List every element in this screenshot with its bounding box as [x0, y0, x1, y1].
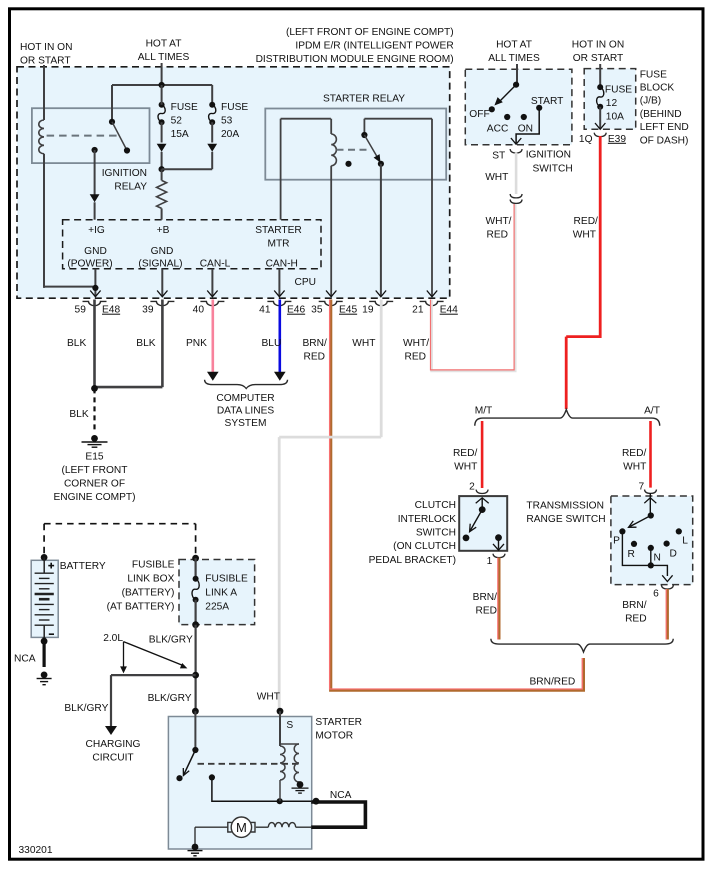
- svg-text:INTERLOCK: INTERLOCK: [398, 514, 457, 525]
- svg-text:20A: 20A: [221, 129, 239, 140]
- svg-text:BRN/: BRN/: [473, 592, 498, 603]
- svg-text:FUSE: FUSE: [605, 84, 632, 95]
- svg-text:10A: 10A: [606, 111, 624, 122]
- svg-text:53: 53: [221, 116, 233, 127]
- svg-text:6: 6: [653, 588, 659, 599]
- svg-text:225A: 225A: [205, 602, 229, 613]
- svg-text:ON: ON: [518, 123, 533, 134]
- svg-text:SYSTEM: SYSTEM: [225, 418, 267, 429]
- svg-text:R: R: [628, 549, 635, 560]
- svg-text:39: 39: [142, 305, 154, 316]
- svg-text:MTR: MTR: [267, 239, 289, 250]
- svg-text:(BATTERY): (BATTERY): [122, 588, 175, 599]
- svg-text:BLU: BLU: [262, 338, 282, 349]
- svg-text:WHT: WHT: [352, 338, 375, 349]
- svg-text:HOT IN ON: HOT IN ON: [572, 39, 624, 50]
- svg-text:WHT: WHT: [454, 462, 477, 473]
- svg-text:41: 41: [259, 305, 271, 316]
- svg-text:D: D: [670, 548, 677, 559]
- svg-text:(ON CLUTCH: (ON CLUTCH: [393, 541, 456, 552]
- svg-text:STARTER: STARTER: [315, 717, 362, 728]
- svg-text:OF DASH): OF DASH): [640, 135, 689, 146]
- svg-text:35: 35: [311, 305, 323, 316]
- svg-text:FUSE: FUSE: [640, 69, 667, 80]
- svg-text:LINK BOX: LINK BOX: [127, 573, 174, 584]
- svg-text:E15: E15: [85, 452, 103, 463]
- svg-text:IGNITION: IGNITION: [102, 168, 147, 179]
- svg-text:330201: 330201: [19, 845, 53, 856]
- svg-text:HOT AT: HOT AT: [496, 39, 532, 50]
- svg-text:1Q: 1Q: [579, 134, 593, 145]
- svg-text:ALL TIMES: ALL TIMES: [488, 53, 540, 64]
- svg-text:M: M: [236, 820, 247, 835]
- svg-text:(LEFT FRONT OF ENGINE COMPT): (LEFT FRONT OF ENGINE COMPT): [286, 27, 454, 38]
- svg-text:WHT: WHT: [623, 462, 646, 473]
- svg-text:CLUTCH: CLUTCH: [415, 500, 456, 511]
- svg-text:STARTER RELAY: STARTER RELAY: [323, 94, 405, 105]
- svg-text:M/T: M/T: [475, 406, 493, 417]
- svg-text:START: START: [531, 96, 563, 107]
- svg-text:19: 19: [362, 305, 374, 316]
- svg-text:ENGINE COMPT): ENGINE COMPT): [53, 492, 135, 503]
- svg-text:12: 12: [606, 98, 618, 109]
- svg-text:BLK/GRY: BLK/GRY: [148, 693, 192, 704]
- svg-text:TRANSMISSION: TRANSMISSION: [526, 500, 604, 511]
- svg-text:(AT BATTERY): (AT BATTERY): [107, 602, 175, 613]
- svg-text:ST: ST: [492, 151, 505, 162]
- svg-text:(LEFT FRONT: (LEFT FRONT: [61, 465, 127, 476]
- svg-text:BATTERY: BATTERY: [60, 561, 106, 572]
- svg-text:(POWER): (POWER): [67, 259, 112, 270]
- svg-text:CPU: CPU: [295, 277, 317, 288]
- svg-text:IPDM E/R (INTELLIGENT POWER: IPDM E/R (INTELLIGENT POWER: [295, 40, 453, 51]
- svg-text:E45: E45: [339, 305, 357, 316]
- svg-text:NCA: NCA: [14, 653, 36, 664]
- svg-text:(J/B): (J/B): [640, 96, 662, 107]
- svg-text:+B: +B: [157, 225, 170, 236]
- svg-text:GND: GND: [151, 246, 174, 257]
- svg-text:RED: RED: [405, 351, 427, 362]
- svg-text:RED: RED: [486, 230, 508, 241]
- svg-text:BLOCK: BLOCK: [640, 83, 675, 94]
- svg-text:HOT IN ON: HOT IN ON: [20, 42, 72, 53]
- svg-text:WHT: WHT: [485, 172, 508, 183]
- svg-text:IGNITION: IGNITION: [526, 150, 571, 161]
- svg-text:COMPUTER: COMPUTER: [216, 393, 274, 404]
- svg-text:FUSIBLE: FUSIBLE: [132, 559, 175, 570]
- svg-text:DISTRIBUTION MODULE ENGINE ROO: DISTRIBUTION MODULE ENGINE ROOM): [256, 54, 454, 65]
- svg-text:BRN/: BRN/: [622, 600, 647, 611]
- svg-text:WHT: WHT: [257, 691, 280, 702]
- svg-text:RED/: RED/: [622, 448, 647, 459]
- svg-text:E39: E39: [608, 134, 626, 145]
- svg-text:+IG: +IG: [88, 225, 105, 236]
- svg-text:L: L: [682, 535, 688, 546]
- svg-text:RED/: RED/: [574, 216, 599, 227]
- svg-text:OR START: OR START: [573, 53, 624, 64]
- svg-text:CHARGING: CHARGING: [86, 739, 141, 750]
- svg-text:CAN-H: CAN-H: [266, 259, 298, 270]
- svg-text:OR START: OR START: [20, 56, 71, 67]
- svg-text:A/T: A/T: [644, 406, 660, 417]
- svg-text:E46: E46: [287, 305, 305, 316]
- svg-text:GND: GND: [84, 246, 107, 257]
- svg-text:PNK: PNK: [186, 338, 207, 349]
- svg-text:2.0L: 2.0L: [103, 633, 123, 644]
- svg-text:HOT AT: HOT AT: [146, 38, 182, 49]
- svg-text:PEDAL BRACKET): PEDAL BRACKET): [369, 555, 456, 566]
- svg-text:RED: RED: [475, 606, 497, 617]
- svg-text:N: N: [654, 552, 661, 563]
- svg-text:NCA: NCA: [330, 790, 352, 801]
- svg-text:(BEHIND: (BEHIND: [640, 109, 682, 120]
- svg-text:BLK/GRY: BLK/GRY: [149, 634, 193, 645]
- svg-text:DATA LINES: DATA LINES: [217, 405, 275, 416]
- svg-text:BLK/GRY: BLK/GRY: [64, 703, 108, 714]
- svg-text:ACC: ACC: [487, 123, 509, 134]
- svg-text:ALL TIMES: ALL TIMES: [138, 52, 190, 63]
- svg-text:RED: RED: [304, 351, 326, 362]
- svg-text:RANGE SWITCH: RANGE SWITCH: [526, 514, 605, 525]
- svg-text:RED/: RED/: [453, 448, 478, 459]
- svg-text:2: 2: [469, 482, 475, 493]
- svg-text:BLK: BLK: [69, 409, 88, 420]
- svg-text:40: 40: [193, 305, 205, 316]
- svg-text:RED: RED: [625, 614, 647, 625]
- svg-text:1: 1: [487, 556, 493, 567]
- svg-text:CAN-L: CAN-L: [200, 259, 231, 270]
- svg-text:STARTER: STARTER: [255, 225, 302, 236]
- svg-text:59: 59: [75, 305, 87, 316]
- svg-text:15A: 15A: [171, 129, 189, 140]
- svg-text:FUSE: FUSE: [171, 102, 198, 113]
- svg-text:P: P: [613, 535, 620, 546]
- svg-text:WHT: WHT: [573, 230, 596, 241]
- svg-text:BLK: BLK: [67, 338, 86, 349]
- svg-text:7: 7: [639, 482, 645, 493]
- svg-text:SWITCH: SWITCH: [416, 528, 456, 539]
- svg-text:SWITCH: SWITCH: [533, 164, 573, 175]
- svg-text:BRN/RED: BRN/RED: [529, 676, 575, 687]
- svg-text:CORNER OF: CORNER OF: [64, 479, 125, 490]
- svg-text:(SIGNAL): (SIGNAL): [138, 259, 182, 270]
- svg-text:52: 52: [171, 116, 183, 127]
- svg-text:MOTOR: MOTOR: [315, 730, 353, 741]
- svg-text:BRN/: BRN/: [303, 338, 328, 349]
- svg-text:LEFT END: LEFT END: [640, 122, 689, 133]
- svg-text:OFF: OFF: [469, 109, 489, 120]
- svg-text:FUSIBLE: FUSIBLE: [205, 573, 248, 584]
- svg-text:S: S: [286, 720, 293, 731]
- svg-text:LINK A: LINK A: [205, 588, 237, 599]
- svg-text:WHT/: WHT/: [485, 216, 511, 227]
- svg-text:FUSE: FUSE: [221, 102, 248, 113]
- svg-text:E44: E44: [440, 305, 458, 316]
- svg-text:CIRCUIT: CIRCUIT: [92, 753, 133, 764]
- svg-text:RELAY: RELAY: [114, 182, 147, 193]
- svg-text:BLK: BLK: [136, 338, 155, 349]
- svg-text:E48: E48: [102, 305, 120, 316]
- svg-text:WHT/: WHT/: [403, 338, 429, 349]
- svg-text:21: 21: [412, 305, 424, 316]
